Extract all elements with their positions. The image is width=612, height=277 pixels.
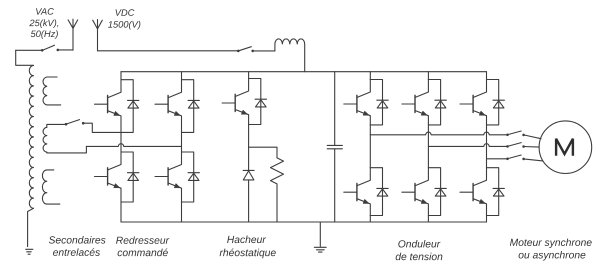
- transistor Q5 with diode D5 (chopper): [222, 79, 266, 125]
- switch K2 (rectifier input): [47, 120, 85, 128]
- transistor Q9 with diode D10 (inverter leg1 bottom): [344, 168, 388, 216]
- diode D6 (chopper series): [243, 170, 254, 222]
- transistor Q3 with diode D3 (rectifier leg1 bottom): [95, 152, 139, 202]
- transformer secondary S1: [43, 77, 61, 105]
- wire chopper leg mid: [248, 125, 250, 171]
- wire primary bottom: [28, 208, 34, 246]
- switch K3 (DC line breaker): [98, 47, 275, 53]
- wire chopper branch: [249, 147, 277, 158]
- transistor Q2 with diode D2 (rectifier leg2 top): [155, 80, 199, 133]
- wire bottom DC bus (-): [121, 221, 487, 223]
- motor M (synchronous/asynchronous): [539, 121, 592, 174]
- switch K6 (motor phase 3): [506, 155, 543, 161]
- transformer primary: [29, 66, 33, 209]
- transformer secondary S3: [42, 170, 59, 204]
- transistor Q7 with diode D8 (inverter leg2 top): [402, 80, 446, 125]
- transistor Q8 with diode D9 (inverter leg3 top): [460, 80, 504, 125]
- label Moteur synchrone ou asynchrone: [510, 238, 592, 260]
- transistor Q1 with diode D1 (rectifier leg1 top): [95, 80, 139, 133]
- wire rectifier leg2 segments: [181, 72, 183, 222]
- wire primary feed: [16, 50, 34, 65]
- label VAC 25(kV), 50(Hz): [29, 8, 58, 39]
- wire AC2: [47, 144, 182, 153]
- transistor Q11 with diode D12 (inverter leg3 bottom): [460, 168, 504, 216]
- wire phase V: [428, 144, 506, 147]
- wire AC1: [83, 123, 121, 132]
- label Redresseur commande: [116, 236, 169, 256]
- transistor Q4 with diode D4 (rectifier leg2 bottom): [155, 152, 199, 202]
- wire inverter leg1 segments: [369, 72, 371, 222]
- wire inverter leg3 segments: [486, 72, 488, 222]
- switch K5 (motor phase 2): [506, 143, 539, 148]
- label Hacheur rheostatique: [220, 236, 276, 259]
- capacitor C1 (DC link): [327, 72, 342, 222]
- wire phase U: [370, 132, 507, 135]
- inductor L1: [275, 39, 305, 72]
- wire inverter leg2 segments: [427, 72, 429, 222]
- label Secondaires entrelaces: [49, 236, 106, 256]
- transistor Q10 with diode D11 (inverter leg2 bottom): [402, 168, 446, 216]
- wire phase W: [487, 158, 507, 160]
- pantograph VAC: [68, 19, 78, 50]
- transistor Q6 with diode D7 (inverter leg1 top): [344, 80, 388, 125]
- resistor R1 (braking rheostat): [271, 158, 284, 222]
- ground transformer: [26, 249, 33, 254]
- ground DC bus: [314, 222, 326, 252]
- label Onduleur de tension: [396, 240, 443, 260]
- switch K4 (motor phase 1): [506, 131, 541, 139]
- pantograph VDC: [93, 20, 103, 51]
- wire chopper leg top: [248, 72, 250, 79]
- label VDC 1500(V): [108, 9, 140, 29]
- switch K1 (VAC line breaker): [16, 45, 73, 51]
- wire rectifier leg1 segments: [120, 72, 122, 222]
- transformer secondary S2: [43, 127, 47, 152]
- wire top DC bus (+): [121, 71, 487, 73]
